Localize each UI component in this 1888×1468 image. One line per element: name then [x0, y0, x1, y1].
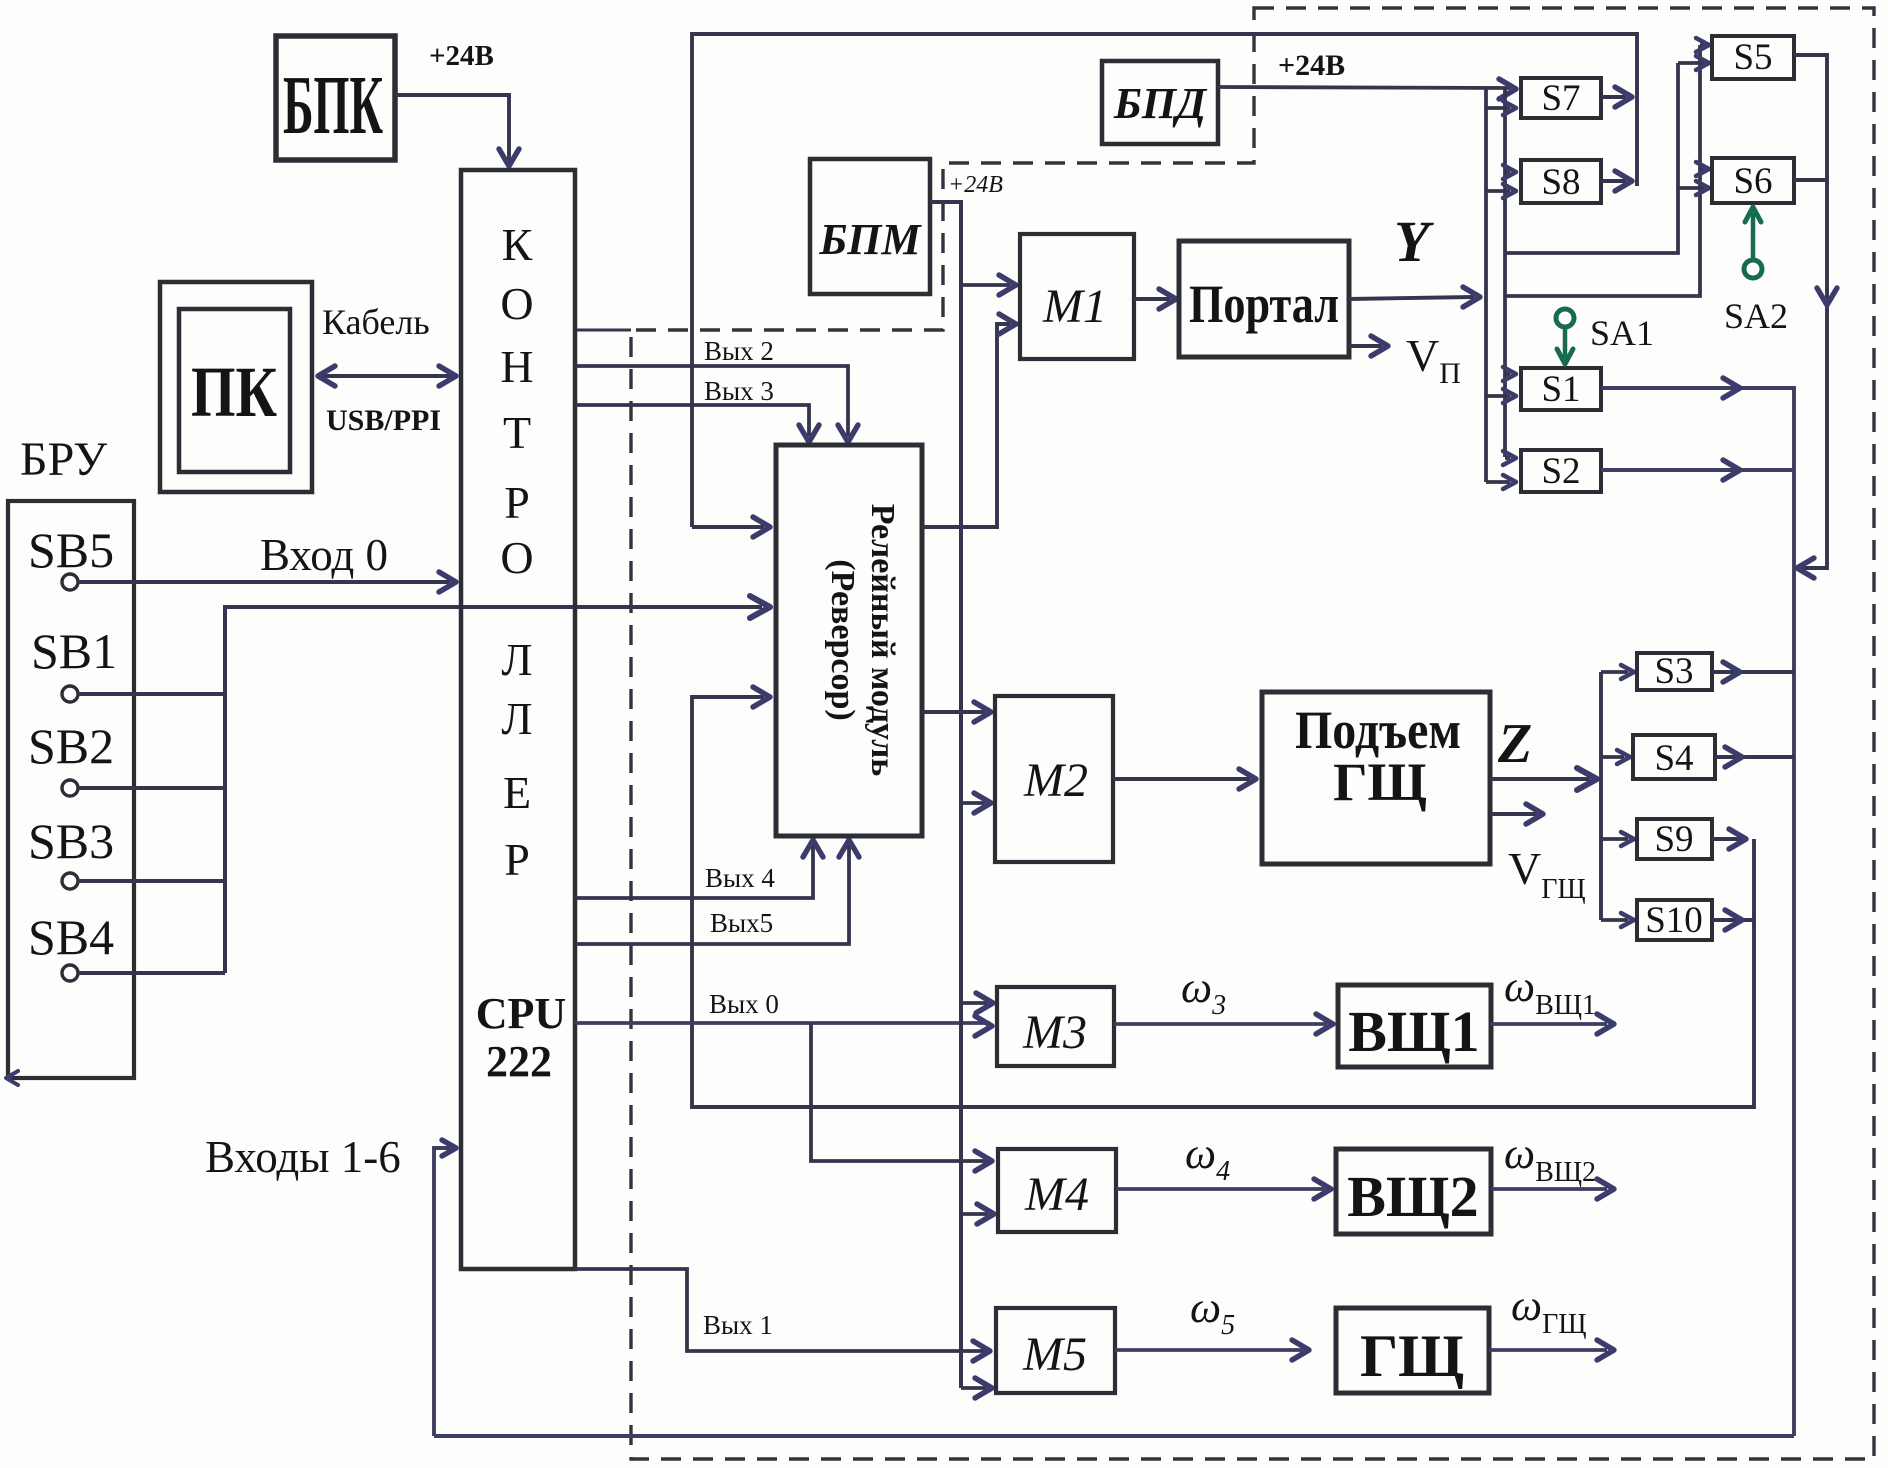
sensor S5: [1712, 36, 1794, 79]
sensor S4: [1633, 735, 1715, 779]
svg-text:Z: Z: [1497, 713, 1532, 775]
wire +24V stub to М4: [961, 1212, 988, 1216]
svg-text:222: 222: [486, 1037, 552, 1086]
wire Вых 4 to relay module bottom: [575, 844, 813, 898]
svg-text:О: О: [500, 532, 533, 583]
wire БПК to controller +24V: [395, 95, 509, 162]
wire ВЩ1 output: [1491, 1022, 1607, 1026]
wire +24V stub to М5: [961, 1386, 986, 1390]
wire Вых 1 to М5: [575, 1269, 986, 1351]
wire М2 to Подъем ГЩ: [1113, 777, 1250, 781]
block ГЩ: [1336, 1308, 1489, 1393]
svg-text:S9: S9: [1654, 819, 1693, 860]
wire Вых 5 to relay module bottom: [575, 844, 849, 944]
wire S2 output: [1601, 468, 1794, 472]
wire +24V stub to М2: [961, 801, 985, 805]
wire stub into S9: [1601, 837, 1628, 841]
svg-text:ВЩ2: ВЩ2: [1347, 1164, 1478, 1229]
wire SB1 stub: [78, 692, 225, 696]
svg-text:ВЩ1: ВЩ1: [1348, 999, 1479, 1064]
svg-text:М5: М5: [1022, 1328, 1087, 1381]
svg-text:S3: S3: [1654, 651, 1693, 692]
svg-text:Е: Е: [503, 767, 531, 818]
wire S6 output: [1794, 178, 1827, 182]
dashed enclosure (remote module boundary): [631, 8, 1874, 1459]
wire S4 output: [1715, 755, 1794, 759]
wire М3 to ВЩ1: [1114, 1022, 1327, 1026]
svg-text:ГЩ: ГЩ: [1360, 1323, 1464, 1389]
wire Z output to sensor bus: [1490, 777, 1590, 781]
wire S9 output: [1712, 837, 1748, 841]
wire S3 output: [1712, 670, 1794, 674]
block БРУ buttons box: [8, 501, 134, 1078]
svg-text:Вых 1: Вых 1: [703, 1310, 773, 1340]
svg-text:S10: S10: [1645, 900, 1703, 941]
wire +24V stub to М3: [961, 1001, 987, 1005]
svg-text:(Реверсор): (Реверсор): [824, 559, 861, 720]
wire bottom feedback line: [434, 1434, 1794, 1438]
arrow at БРУ bottom-left: [6, 1071, 18, 1085]
block ВЩ2: [1336, 1149, 1491, 1234]
wire stub into S4: [1601, 755, 1624, 759]
wire bus branch Y to S5/S6: [1505, 45, 1700, 296]
block ВЩ1: [1338, 985, 1491, 1067]
wire БРУ bus to relay module: [225, 607, 762, 973]
svg-text:БПМ: БПМ: [818, 215, 922, 264]
svg-text:S6: S6: [1733, 161, 1772, 202]
svg-text:SB4: SB4: [28, 909, 114, 965]
svg-text:Л: Л: [501, 634, 532, 685]
block БПМ motor power supply: [810, 159, 930, 294]
wire S8 output: [1601, 179, 1626, 183]
wire БПМ +24V bus: [930, 202, 961, 1388]
wire М1 to Портал: [1134, 297, 1170, 301]
svg-text:Входы 1-6: Входы 1-6: [205, 1132, 401, 1182]
svg-text:Н: Н: [500, 341, 533, 392]
svg-text:Вход 0: Вход 0: [260, 530, 388, 580]
wire БПД +24V to sensor bus: [1218, 87, 1510, 88]
sensor S6: [1712, 158, 1794, 203]
sensor S8: [1521, 160, 1601, 203]
svg-text:+24В: +24В: [1278, 49, 1345, 82]
wire ПК-controller bidirectional cable: [322, 374, 452, 378]
svg-text:SB5: SB5: [28, 522, 114, 578]
svg-text:Вых 4: Вых 4: [705, 863, 775, 893]
wire lower feedback vertical to relay module: [692, 697, 1754, 1107]
svg-text:S5: S5: [1733, 37, 1772, 78]
wire stub into S3: [1601, 670, 1628, 674]
sensor S1: [1521, 368, 1601, 410]
wire relay module to М2: [922, 710, 985, 714]
wire inputs 1-6 feedback into controller: [434, 1148, 450, 1436]
svg-text:+24В: +24В: [429, 40, 494, 72]
svg-text:Вых 3: Вых 3: [704, 376, 774, 406]
wire V_П output: [1349, 344, 1382, 348]
svg-text:О: О: [500, 278, 533, 329]
wire stub into S6 upper: [1700, 167, 1704, 171]
block КОНТРОЛЛЕР CPU 222: [461, 170, 575, 1269]
svg-text:SB2: SB2: [28, 718, 114, 774]
svg-text:Портал: Портал: [1189, 274, 1339, 334]
svg-text:Р: Р: [504, 834, 530, 885]
wire SB4 stub: [78, 971, 225, 975]
wire Z distribution bus: [1599, 672, 1603, 920]
wire Вых 0 to М3: [575, 1021, 990, 1025]
svg-text:S7: S7: [1541, 78, 1580, 119]
wire bus branch to S5 (upper horizontal): [1505, 63, 1678, 253]
svg-text:Л: Л: [501, 693, 532, 744]
wire S5 output: [1794, 55, 1827, 568]
wire Вых 3 to relay module: [575, 405, 809, 436]
block М5 motor drive: [996, 1308, 1115, 1393]
wire +24V stub to М1: [961, 283, 1010, 287]
sensor S10: [1637, 900, 1712, 940]
wire ГЩ output: [1489, 1348, 1607, 1352]
wire stub into S2 lower: [1486, 480, 1510, 484]
svg-text:+24В: +24В: [948, 172, 1003, 198]
wire stub into S2 upper: [1505, 456, 1510, 460]
wire ВЩ2 output: [1491, 1187, 1607, 1191]
block Подъем ГЩ: [1262, 692, 1490, 864]
wire relay module to М1: [922, 324, 1010, 527]
svg-text:Подъем: Подъем: [1295, 700, 1461, 760]
wire stub into S6 lower: [1678, 186, 1704, 190]
wire SA1 arrow to S1: [1563, 327, 1568, 358]
svg-text:БПК: БПК: [283, 59, 383, 152]
svg-text:SA1: SA1: [1590, 313, 1654, 353]
switch SA2 contact: [1744, 260, 1762, 278]
sensor S2: [1521, 450, 1601, 492]
wire controller to dashed boundary: [575, 329, 631, 332]
wire V_ГЩ output: [1490, 812, 1537, 816]
wire Y output to sensor bus: [1349, 297, 1474, 299]
svg-text:Кабель: Кабель: [322, 302, 430, 342]
wire Вых 2 to relay module: [575, 366, 848, 436]
wire stub into S8 upper: [1505, 170, 1510, 174]
wire stub into S10: [1601, 918, 1628, 922]
block ПК personal computer (double border): [160, 282, 312, 492]
wire S1 output to feedback bus: [1601, 388, 1794, 1436]
svg-text:S2: S2: [1541, 451, 1580, 492]
block М2 motor drive: [995, 696, 1113, 862]
svg-text:М3: М3: [1022, 1006, 1087, 1059]
sensor S9: [1637, 819, 1712, 859]
svg-text:М4: М4: [1024, 1168, 1089, 1221]
svg-text:SA2: SA2: [1724, 296, 1788, 336]
svg-text:БПД: БПД: [1113, 79, 1208, 128]
sensor S3: [1637, 653, 1712, 690]
wire stub into S5 lower: [1678, 61, 1704, 65]
switch SA1 contact: [1556, 309, 1574, 327]
svg-text:Р: Р: [504, 477, 530, 528]
block БПД drive power supply: [1102, 61, 1218, 144]
svg-text:SB3: SB3: [28, 813, 114, 869]
wire S7 output: [1601, 95, 1626, 99]
block БПК power supply: [276, 36, 395, 160]
svg-text:К: К: [502, 219, 533, 270]
svg-text:Вых5: Вых5: [710, 908, 773, 938]
block Портал: [1179, 241, 1349, 357]
svg-text:S1: S1: [1541, 369, 1580, 410]
svg-text:Т: Т: [503, 407, 531, 458]
block М1 motor drive: [1020, 234, 1134, 359]
wire top feedback line y=34: [692, 34, 1637, 527]
svg-text:Вых 2: Вых 2: [704, 336, 774, 366]
wire sensor supply bus V2: [1503, 88, 1507, 457]
wire М5 to ГЩ: [1115, 1348, 1303, 1352]
wire SB3 stub: [78, 879, 225, 883]
svg-text:М1: М1: [1042, 280, 1107, 333]
wire SA2 arrow to S6: [1751, 213, 1756, 260]
svg-text:Вых 0: Вых 0: [709, 989, 779, 1019]
svg-text:CPU: CPU: [476, 989, 566, 1038]
svg-text:М2: М2: [1023, 754, 1088, 807]
svg-text:S4: S4: [1654, 738, 1693, 779]
sensor S7: [1521, 78, 1601, 118]
wire М4 to ВЩ2: [1116, 1187, 1325, 1191]
svg-text:SB1: SB1: [31, 623, 117, 679]
wire stub into S7 lower: [1486, 106, 1510, 110]
block М4 motor drive: [998, 1149, 1116, 1232]
wire into relay module left (upper): [692, 525, 764, 529]
block Релейный модуль (Реверсор): [776, 445, 922, 836]
svg-text:S8: S8: [1541, 162, 1580, 203]
svg-text:Релейный модуль: Релейный модуль: [864, 504, 901, 777]
svg-text:ПК: ПК: [191, 352, 277, 432]
wire SB2 stub: [78, 786, 225, 790]
wire S10 output: [1712, 918, 1754, 922]
svg-text:БРУ: БРУ: [20, 433, 107, 486]
svg-text:ГЩ: ГЩ: [1333, 752, 1427, 812]
wire Вых 0 branch to М4: [811, 1023, 988, 1161]
wire SB5 to controller input 0: [78, 580, 450, 584]
arrow down on S5/S6 bus: [1817, 288, 1837, 305]
wire stub into S8 lower: [1486, 189, 1510, 193]
block М3 motor drive: [997, 987, 1114, 1066]
svg-text:Y: Y: [1394, 209, 1434, 274]
wire sensor supply bus V1: [1484, 88, 1488, 482]
svg-text:USB/PPI: USB/PPI: [326, 404, 441, 437]
wire stub into S1 lower: [1486, 394, 1510, 398]
wire stub into S5 upper: [1700, 43, 1704, 47]
wire stub into S1 upper: [1505, 372, 1510, 376]
